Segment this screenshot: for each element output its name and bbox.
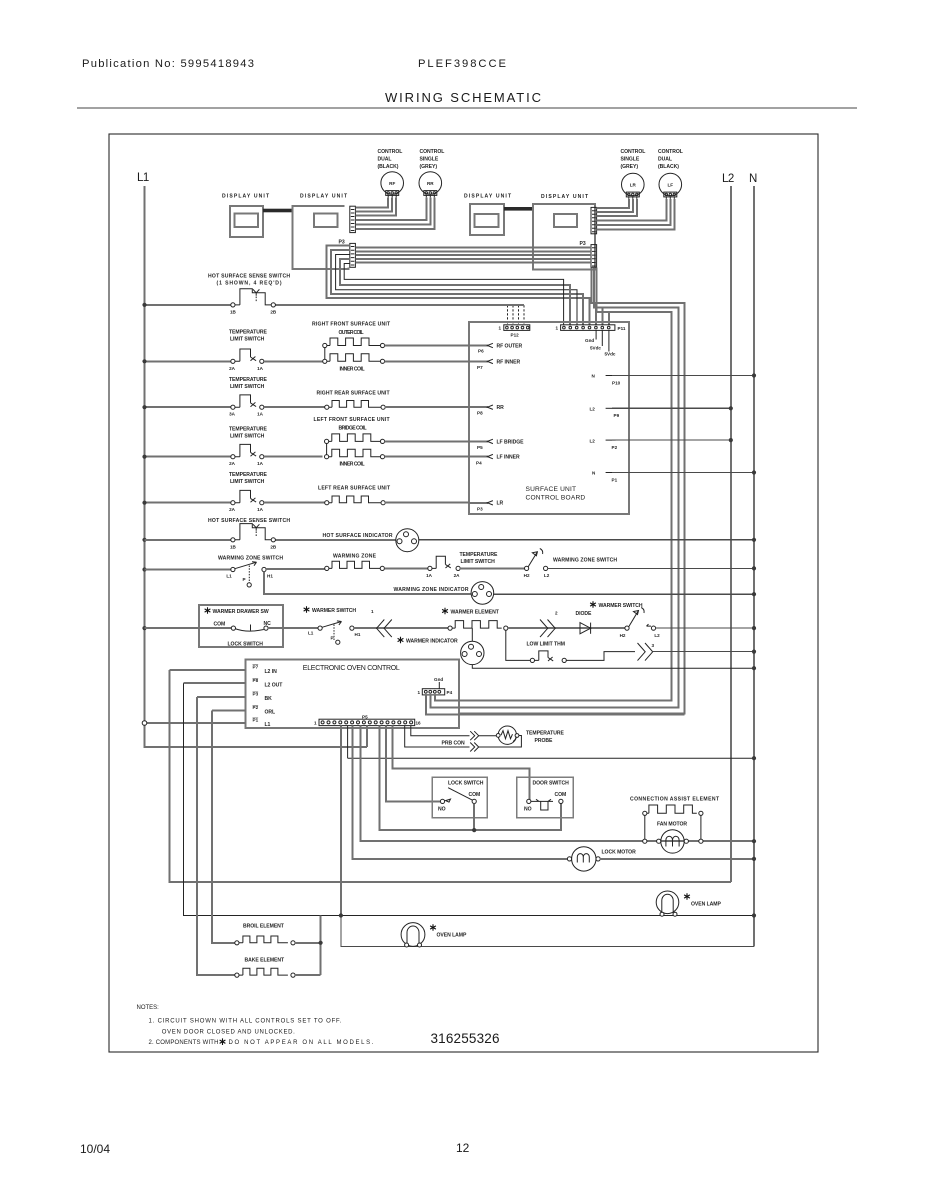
temperature limit switch 4 bbox=[229, 490, 264, 512]
svg-text:3: 3 bbox=[652, 643, 655, 648]
wire P5 pin 6 to lock motor row bbox=[353, 726, 568, 859]
svg-text:NO: NO bbox=[438, 807, 446, 813]
svg-text:1: 1 bbox=[314, 721, 317, 726]
svg-text:316255326: 316255326 bbox=[431, 1031, 500, 1046]
svg-text:DOOR SWITCH: DOOR SWITCH bbox=[533, 781, 570, 787]
wire warmer row to N bbox=[656, 627, 754, 629]
wire lock COM drop to row 830 bbox=[473, 804, 475, 831]
svg-text:TEMPERATURE: TEMPERATURE bbox=[460, 552, 498, 558]
svg-text:1. CIRCUIT SHOWN WITH ALL CO: 1. CIRCUIT SHOWN WITH ALL CONTROLS SET T… bbox=[149, 1019, 342, 1025]
electronic oven control box bbox=[245, 660, 459, 728]
svg-text:OVEN LAMP: OVEN LAMP bbox=[437, 933, 467, 939]
svg-text:L2: L2 bbox=[654, 633, 660, 638]
wire row 2 left bbox=[145, 360, 231, 362]
connector P11 bbox=[556, 325, 626, 331]
warmer drawer switch contacts bbox=[231, 625, 268, 632]
connector P5 bbox=[314, 715, 421, 726]
wire broil bake right side riser bbox=[295, 916, 321, 976]
wire rr coil to board P8 bbox=[385, 406, 469, 408]
wire row warming zone left bbox=[145, 569, 231, 571]
connector chevron 3 bbox=[638, 643, 655, 661]
svg-text:DO NOT APPEAR ON ALL MODELS.: DO NOT APPEAR ON ALL MODELS. bbox=[229, 1040, 374, 1046]
svg-text:P10: P10 bbox=[612, 381, 621, 386]
svg-text:2A: 2A bbox=[454, 573, 461, 578]
svg-text:WARMING ZONE INDICATOR: WARMING ZONE INDICATOR bbox=[394, 587, 469, 593]
wires LF control to display unit 4 connector bbox=[597, 199, 675, 230]
svg-text:P4: P4 bbox=[476, 461, 482, 466]
wire BK drop to bake element bbox=[197, 697, 235, 975]
board pin P9 to L2 bbox=[590, 407, 731, 419]
EOC pin P7 L2 IN bbox=[170, 665, 278, 676]
junction dot N indicator row bbox=[752, 592, 756, 596]
svg-text:TEMPERATURE: TEMPERATURE bbox=[526, 731, 564, 737]
svg-text:ELECTRONIC OVEN CONTROL: ELECTRONIC OVEN CONTROL bbox=[303, 665, 400, 672]
svg-text:LIMIT SWITCH: LIMIT SWITCH bbox=[230, 434, 265, 440]
wire P5 pin 12 to lock switch NO bbox=[386, 726, 441, 802]
warming zone indicator lamp bbox=[471, 582, 494, 605]
connector chevron 2 bbox=[540, 611, 558, 638]
svg-text:RIGHT REAR SURFACE UNIT: RIGHT REAR SURFACE UNIT bbox=[317, 391, 391, 397]
svg-text:WARMING ZONE SWITCH: WARMING ZONE SWITCH bbox=[553, 558, 617, 564]
svg-text:LF BRIDGE: LF BRIDGE bbox=[497, 440, 525, 446]
svg-text:TEMPERATURE: TEMPERATURE bbox=[229, 330, 267, 336]
svg-text:LIMIT SWITCH: LIMIT SWITCH bbox=[230, 337, 265, 343]
svg-text:H2: H2 bbox=[620, 633, 626, 638]
svg-text:LOCK SWITCH: LOCK SWITCH bbox=[448, 781, 484, 787]
svg-text:P3: P3 bbox=[339, 240, 345, 246]
svg-text:DISPLAY UNIT: DISPLAY UNIT bbox=[222, 194, 270, 200]
connector chevron 1 bbox=[371, 609, 392, 637]
left front surface unit labels bbox=[314, 417, 391, 468]
board pin P2 to L2 bbox=[590, 438, 731, 450]
svg-text:P6: P6 bbox=[478, 349, 484, 354]
wire lf inner coil to board P4 bbox=[385, 456, 469, 458]
svg-text:LIMIT SWITCH: LIMIT SWITCH bbox=[461, 559, 496, 565]
display unit 4 bbox=[533, 194, 595, 270]
svg-text:1A: 1A bbox=[257, 507, 264, 512]
wire H1 to chevron 1 bbox=[354, 627, 450, 629]
wire probe row to N bbox=[348, 757, 754, 759]
svg-text:WARMER DRAWER SW: WARMER DRAWER SW bbox=[213, 609, 269, 615]
warmer indicator lamp bbox=[461, 628, 484, 665]
board pin P6 RF OUTER bbox=[469, 343, 523, 353]
svg-text:1B: 1B bbox=[230, 544, 237, 549]
ribbon cable between display units 3-4 bbox=[504, 207, 533, 211]
svg-text:RF INNER: RF INNER bbox=[497, 360, 521, 366]
warmer element label bbox=[442, 608, 448, 615]
wire ORL drop to broil element bbox=[212, 710, 235, 942]
svg-text:RIGHT FRONT SURFACE UNIT: RIGHT FRONT SURFACE UNIT bbox=[312, 322, 391, 328]
wire N rail bbox=[753, 186, 755, 946]
junction dot lock COM row bbox=[472, 828, 476, 832]
svg-text:1: 1 bbox=[418, 690, 421, 695]
svg-text:SURFACE UNIT: SURFACE UNIT bbox=[526, 486, 577, 493]
surface unit control board box bbox=[469, 322, 629, 514]
svg-text:RR: RR bbox=[427, 181, 434, 186]
junction dot N indicator bottom row bbox=[752, 666, 756, 670]
wire row warmer left into box bbox=[145, 627, 231, 629]
rr coil bbox=[325, 401, 386, 410]
svg-text:INNER COIL: INNER COIL bbox=[340, 367, 365, 373]
svg-text:(GREY): (GREY) bbox=[621, 164, 639, 170]
svg-text:L1: L1 bbox=[308, 631, 314, 636]
warming zone switch 2 bbox=[524, 549, 550, 578]
svg-text:TEMPERATURE: TEMPERATURE bbox=[229, 427, 267, 433]
wire row 882 L2 return bbox=[170, 670, 731, 882]
wire chevron to probe bbox=[479, 735, 496, 737]
temperature limit switch 3 label bbox=[229, 427, 267, 440]
svg-text:H1: H1 bbox=[355, 632, 361, 637]
svg-text:DUAL: DUAL bbox=[658, 157, 672, 163]
svg-text:DIODE: DIODE bbox=[576, 611, 593, 617]
svg-text:2: 2 bbox=[555, 611, 558, 616]
svg-text:L2 OUT: L2 OUT bbox=[265, 683, 284, 689]
wires RF control to display unit 2 connector bbox=[355, 197, 396, 215]
junction dot N fan row bbox=[752, 839, 756, 843]
svg-text:16: 16 bbox=[416, 721, 422, 726]
svg-text:P8: P8 bbox=[253, 678, 259, 683]
svg-text:(BLACK): (BLACK) bbox=[378, 164, 399, 170]
svg-text:RR: RR bbox=[497, 405, 505, 411]
connector P3 of display unit 2 bbox=[339, 240, 356, 268]
svg-text:3A: 3A bbox=[229, 412, 236, 417]
wire element drop to low limit bbox=[506, 630, 531, 660]
svg-text:1B: 1B bbox=[230, 310, 237, 315]
wires RR control to display unit 2 connector bbox=[355, 197, 434, 229]
svg-text:DISPLAY UNIT: DISPLAY UNIT bbox=[541, 194, 589, 200]
svg-text:TEMPERATURE: TEMPERATURE bbox=[229, 472, 267, 478]
rf outer coil bbox=[323, 338, 385, 348]
svg-text:1: 1 bbox=[499, 326, 502, 331]
connector P4 Gnd bbox=[418, 677, 453, 695]
svg-text:LR: LR bbox=[497, 501, 504, 507]
svg-text:2A: 2A bbox=[229, 366, 236, 371]
control head LF bbox=[658, 149, 683, 199]
junction dot N row 915 bbox=[752, 913, 756, 917]
svg-text:LIMIT SWITCH: LIMIT SWITCH bbox=[230, 384, 265, 390]
svg-text:2A: 2A bbox=[229, 507, 236, 512]
warmer indicator label bbox=[398, 637, 404, 644]
title WIRING SCHEMATIC bbox=[77, 90, 857, 108]
svg-text:NO: NO bbox=[524, 807, 532, 813]
svg-text:NOTES:: NOTES: bbox=[137, 1005, 160, 1011]
svg-text:TEMPERATURE: TEMPERATURE bbox=[229, 377, 267, 383]
oven lamp right bbox=[656, 891, 679, 916]
svg-text:OVEN LAMP: OVEN LAMP bbox=[691, 902, 721, 908]
footer date and page number bbox=[80, 1141, 470, 1156]
hot surface sense switch 2 bbox=[230, 524, 277, 550]
svg-text:P1: P1 bbox=[253, 718, 259, 723]
svg-text:L1: L1 bbox=[226, 574, 232, 579]
ribbon cable between display units 1-2 bbox=[263, 209, 293, 213]
svg-text:LOCK SWITCH: LOCK SWITCH bbox=[228, 642, 264, 648]
hot surface indicator lamp bbox=[396, 529, 419, 552]
svg-text:L2: L2 bbox=[590, 407, 596, 412]
svg-text:OVEN DOOR CLOSED AND UNLOCKED.: OVEN DOOR CLOSED AND UNLOCKED. bbox=[162, 1030, 295, 1036]
bake element bbox=[235, 968, 295, 977]
wire H1 to warming zone coil bbox=[266, 568, 325, 570]
wire P5 pin 4 long drop bbox=[340, 726, 342, 916]
lr coil bbox=[325, 496, 386, 505]
svg-text:COM: COM bbox=[469, 792, 481, 798]
svg-text:1: 1 bbox=[556, 326, 559, 331]
wire lr coil to board P3 bbox=[385, 502, 469, 504]
svg-text:P1: P1 bbox=[612, 478, 618, 483]
connector chevron probe return bbox=[470, 743, 479, 752]
svg-text:FAN MOTOR: FAN MOTOR bbox=[657, 822, 687, 828]
svg-text:5Vdc: 5Vdc bbox=[590, 346, 601, 351]
board pin P3 LR bbox=[469, 501, 504, 512]
wire bus P3 right to EOC bundle bbox=[459, 268, 684, 714]
svg-text:WARMER ELEMENT: WARMER ELEMENT bbox=[451, 610, 500, 616]
svg-text:CONTROL: CONTROL bbox=[420, 149, 445, 155]
svg-text:L1: L1 bbox=[137, 172, 149, 184]
svg-text:LF INNER: LF INNER bbox=[497, 455, 520, 461]
oven lamp middle bbox=[401, 923, 425, 947]
temperature limit switch 3 bbox=[229, 444, 264, 466]
warmer switch 2 bbox=[620, 608, 661, 639]
svg-text:2. COMPONENTS WITH: 2. COMPONENTS WITH bbox=[149, 1040, 219, 1046]
svg-text:P3: P3 bbox=[253, 692, 259, 697]
svg-text:BROIL ELEMENT: BROIL ELEMENT bbox=[243, 924, 285, 930]
lock motor bbox=[567, 847, 600, 871]
link outer-inner coil bbox=[324, 348, 326, 360]
rf inner coil bbox=[323, 354, 385, 364]
wire P5 pin 5 drop to row 758 bbox=[347, 726, 349, 759]
svg-text:L2: L2 bbox=[722, 173, 734, 185]
wire P5 pin to probe feed bbox=[411, 726, 470, 736]
connector P12 bbox=[499, 325, 530, 338]
svg-text:P8: P8 bbox=[477, 411, 483, 416]
svg-text:P11: P11 bbox=[618, 326, 626, 331]
svg-text:LIMIT SWITCH: LIMIT SWITCH bbox=[230, 479, 265, 485]
svg-text:OUTER COIL: OUTER COIL bbox=[339, 330, 364, 336]
wire L1 rail bbox=[145, 186, 368, 747]
svg-text:12: 12 bbox=[456, 1141, 470, 1155]
wire low limit to chevron 3 bbox=[566, 652, 635, 661]
svg-text:WARMER SWITCH: WARMER SWITCH bbox=[599, 603, 643, 609]
wire bus P3 to P3 rows bbox=[355, 248, 591, 263]
fan motor bbox=[657, 830, 689, 853]
board pin P8 RR bbox=[469, 405, 504, 416]
svg-text:WARMING ZONE: WARMING ZONE bbox=[333, 554, 377, 560]
wire P5 pin 11 to COM row bbox=[379, 726, 561, 831]
hot surface sense switch title bbox=[208, 274, 290, 287]
svg-text:(GREY): (GREY) bbox=[420, 164, 438, 170]
svg-text:1A: 1A bbox=[257, 366, 264, 371]
svg-text:CONTROL: CONTROL bbox=[378, 149, 403, 155]
EOC pin P2 ORL bbox=[212, 705, 275, 715]
wire probe return path bbox=[479, 736, 522, 748]
svg-text:BRIDGE COIL: BRIDGE COIL bbox=[339, 426, 367, 432]
svg-text:P3: P3 bbox=[477, 507, 483, 512]
warmer switch 2 label bbox=[590, 601, 596, 608]
wire row 915 lamp run bbox=[184, 683, 755, 915]
display unit 4 upper connector bbox=[591, 207, 597, 233]
wire NC to warmer switch bbox=[268, 627, 318, 629]
svg-text:CONTROL: CONTROL bbox=[621, 149, 646, 155]
temperature limit switch 1 label bbox=[229, 330, 267, 343]
svg-text:LEFT FRONT SURFACE UNIT: LEFT FRONT SURFACE UNIT bbox=[314, 417, 391, 423]
wire switch 4 to lr coil bbox=[264, 502, 325, 504]
svg-text:Gnd: Gnd bbox=[434, 677, 443, 682]
wire L2 terminal to N bbox=[548, 567, 754, 569]
connector P3 of display unit 4 bbox=[580, 241, 597, 267]
wire rf outer coil to board P6 bbox=[385, 345, 469, 347]
svg-text:1: 1 bbox=[371, 609, 374, 614]
svg-text:P7: P7 bbox=[477, 365, 483, 370]
svg-text:5Vdc: 5Vdc bbox=[605, 352, 616, 357]
surface unit control board title bbox=[526, 486, 586, 502]
board pin P1 to N bbox=[592, 471, 754, 483]
svg-text:10/04: 10/04 bbox=[80, 1142, 110, 1156]
junction dot N warmer row bbox=[752, 626, 756, 630]
svg-text:1A: 1A bbox=[426, 573, 433, 578]
display unit 1 bbox=[222, 194, 270, 238]
diode bbox=[580, 623, 591, 634]
svg-text:SINGLE: SINGLE bbox=[621, 157, 640, 163]
door switch box bbox=[517, 777, 573, 818]
svg-text:BAKE ELEMENT: BAKE ELEMENT bbox=[245, 958, 286, 964]
svg-text:P5: P5 bbox=[477, 445, 483, 450]
control head RF bbox=[378, 149, 404, 197]
temperature probe bbox=[496, 726, 519, 744]
svg-text:WARMER SWITCH: WARMER SWITCH bbox=[312, 608, 356, 614]
svg-text:2B: 2B bbox=[270, 310, 277, 315]
temperature probe label bbox=[526, 731, 564, 745]
lock switch box bbox=[432, 777, 487, 818]
svg-text:H1: H1 bbox=[267, 574, 273, 579]
svg-text:N: N bbox=[592, 471, 596, 476]
svg-text:LR: LR bbox=[630, 183, 637, 188]
P11 internal stubs Gnd 5Vdc 5Vdc bbox=[585, 330, 616, 356]
wire oven lamp bottom row bbox=[341, 916, 754, 947]
svg-text:PLEF398CCE: PLEF398CCE bbox=[418, 58, 506, 70]
svg-text:HOT SURFACE SENSE SWITCH: HOT SURFACE SENSE SWITCH bbox=[208, 274, 290, 280]
temperature limit switch 2 bbox=[229, 395, 264, 417]
svg-text:2A: 2A bbox=[229, 461, 236, 466]
wire indicator to N bbox=[494, 593, 754, 595]
wire coil to 1A terminal bbox=[384, 567, 427, 569]
svg-text:CONTROL: CONTROL bbox=[658, 149, 683, 155]
temperature limit switch 4 label bbox=[229, 472, 267, 485]
svg-text:1A: 1A bbox=[257, 412, 264, 417]
wires P4 to right bundle bbox=[426, 695, 685, 715]
svg-text:DISPLAY UNIT: DISPLAY UNIT bbox=[464, 194, 512, 200]
broil element bbox=[235, 936, 295, 945]
svg-text:L1: L1 bbox=[265, 722, 271, 728]
svg-text:(1 SHOWN, 4 REQ'D): (1 SHOWN, 4 REQ'D) bbox=[217, 281, 282, 287]
svg-text:L2: L2 bbox=[590, 438, 596, 443]
wire lf bridge coil to board P5 bbox=[385, 440, 469, 442]
wire element to chevron 2 and diode bbox=[508, 627, 625, 629]
warmer drawer switch box bbox=[199, 605, 283, 648]
wire row 4 left bbox=[145, 456, 231, 458]
svg-text:P2: P2 bbox=[253, 705, 259, 710]
svg-text:LOCK MOTOR: LOCK MOTOR bbox=[602, 850, 637, 856]
wire harness dashed to P12 bbox=[508, 305, 525, 325]
schematic border frame bbox=[109, 134, 818, 1052]
connector chevron probe feed bbox=[470, 731, 479, 740]
svg-text:P: P bbox=[243, 577, 246, 582]
junction dot row 915 at pin drop bbox=[339, 913, 343, 917]
warmer switch bbox=[308, 621, 361, 644]
EOC pin P1 L1 bbox=[142, 718, 270, 728]
junction dot N row 758 bbox=[752, 756, 756, 760]
svg-text:DISPLAY UNIT: DISPLAY UNIT bbox=[300, 194, 348, 200]
wire bus P3 left nested drops bbox=[327, 246, 590, 325]
temperature limit switch 2 label bbox=[229, 377, 267, 390]
wire L1 to P5 pin 8 bbox=[366, 726, 368, 747]
wires element to fan row bbox=[643, 815, 703, 843]
wire switch 3 to lf inner coil bbox=[264, 456, 323, 458]
warmer element coil bbox=[448, 621, 508, 631]
svg-text:Publication No: 5995418943: Publication No: 5995418943 bbox=[82, 58, 254, 70]
notes text bbox=[137, 1005, 374, 1046]
display unit 2 bbox=[293, 194, 349, 270]
display unit 2 upper connector bbox=[350, 206, 356, 232]
svg-text:(BLACK): (BLACK) bbox=[658, 164, 679, 170]
warming zone switch bbox=[226, 562, 273, 587]
board pin P7 RF INNER bbox=[469, 359, 521, 370]
hot surface sense switch 1 bbox=[230, 289, 277, 315]
wire 2A to H2 bbox=[460, 567, 524, 569]
junction dot N chevron 3 row bbox=[752, 650, 756, 654]
svg-text:COM: COM bbox=[555, 792, 567, 798]
svg-text:Gnd: Gnd bbox=[585, 338, 594, 343]
wire rf inner coil to board P7 bbox=[385, 360, 469, 362]
svg-text:RF: RF bbox=[389, 181, 395, 186]
svg-text:WARMING ZONE SWITCH: WARMING ZONE SWITCH bbox=[218, 556, 283, 562]
junction dots right rails upper bbox=[729, 373, 756, 474]
junction dot N lock motor row bbox=[752, 857, 756, 861]
svg-text:LOW LIMIT THM: LOW LIMIT THM bbox=[527, 642, 565, 648]
wire P5 pin 7 to fan row bbox=[361, 726, 754, 842]
svg-text:P12: P12 bbox=[511, 333, 520, 338]
svg-text:RF OUTER: RF OUTER bbox=[497, 344, 523, 350]
connection assist element bbox=[643, 805, 703, 815]
EOC pin P3 BK bbox=[197, 692, 272, 702]
control head LR bbox=[621, 149, 646, 199]
svg-text:PROBE: PROBE bbox=[535, 738, 554, 744]
svg-text:DUAL: DUAL bbox=[378, 157, 392, 163]
lf inner coil bbox=[325, 449, 385, 459]
wire L2 rail bbox=[730, 186, 732, 882]
wire switch 1 to inner coil bbox=[264, 360, 323, 362]
svg-text:PRB CON: PRB CON bbox=[442, 741, 466, 747]
svg-text:ORL: ORL bbox=[265, 710, 276, 716]
door switch contacts bbox=[524, 792, 566, 813]
svg-text:BK: BK bbox=[265, 696, 273, 702]
svg-text:P: P bbox=[331, 636, 334, 641]
svg-text:N: N bbox=[592, 374, 596, 379]
svg-text:1A: 1A bbox=[257, 461, 264, 466]
oven lamp right label bbox=[684, 893, 721, 907]
wire lock motor to N bbox=[600, 858, 754, 860]
temperature limit switch 1 bbox=[229, 349, 264, 371]
link bridge-inner coil bbox=[326, 444, 328, 455]
board pin P10 to N bbox=[592, 374, 755, 386]
svg-text:CONTROL BOARD: CONTROL BOARD bbox=[526, 495, 586, 502]
svg-text:H2: H2 bbox=[524, 573, 530, 578]
wire P5 pin 13 to door switch NO bbox=[392, 726, 529, 800]
junction dot broil riser bbox=[319, 941, 323, 945]
svg-text:WARMER INDICATOR: WARMER INDICATOR bbox=[406, 639, 458, 645]
display unit 3 bbox=[464, 194, 512, 236]
EOC pin P8 L2 OUT bbox=[184, 678, 284, 689]
svg-text:CONNECTION ASSIST ELEMENT: CONNECTION ASSIST ELEMENT bbox=[630, 797, 720, 803]
svg-text:P3: P3 bbox=[580, 241, 586, 247]
